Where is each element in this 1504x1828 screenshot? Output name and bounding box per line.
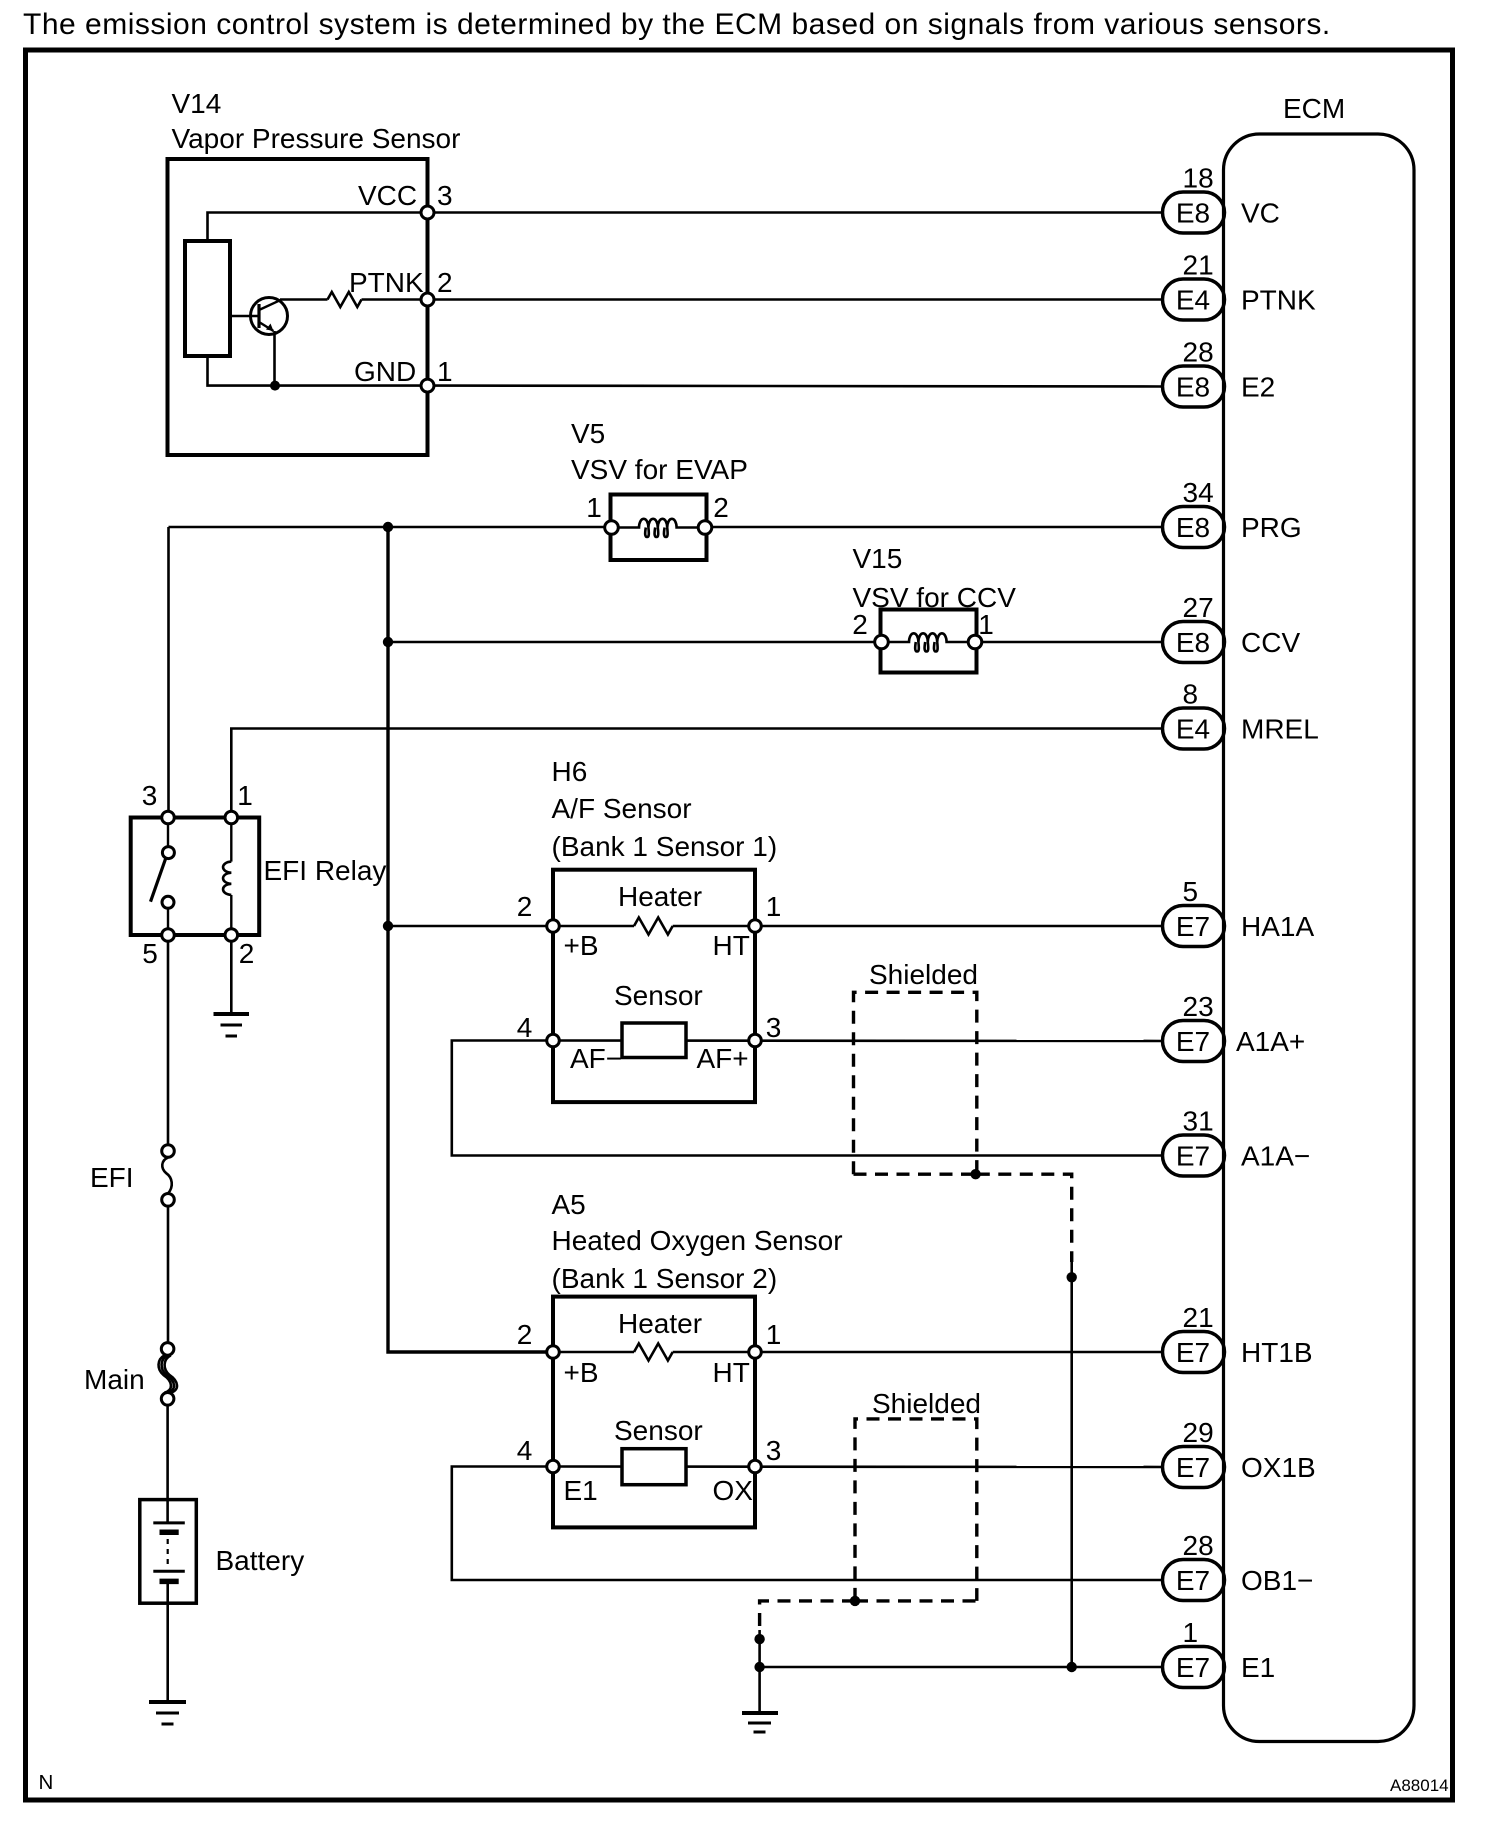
svg-text:A1A+: A1A+ bbox=[1236, 1026, 1305, 1057]
wire relay pin5 down bbox=[167, 941, 170, 1145]
svg-text:2: 2 bbox=[713, 492, 729, 523]
pin 29 E7 OX1B bbox=[1163, 1417, 1316, 1488]
wire PRG right bbox=[712, 526, 1163, 529]
terminal 2 of V14 bbox=[421, 293, 434, 306]
wire VCC internal bbox=[208, 213, 428, 242]
svg-text:3: 3 bbox=[766, 1435, 782, 1466]
sensor element A5 bbox=[622, 1449, 686, 1485]
svg-text:3: 3 bbox=[142, 780, 158, 811]
wire E2 bbox=[434, 384, 1163, 387]
terminal AF- H6 bbox=[547, 1034, 560, 1047]
wire fuse to main link bbox=[167, 1206, 170, 1343]
terminal 3 of V14 bbox=[421, 206, 434, 219]
svg-text:E1: E1 bbox=[564, 1475, 598, 1506]
ground battery bbox=[149, 1702, 186, 1724]
A/F sensor H6 box bbox=[553, 870, 755, 1102]
resistor R1 PTNK bbox=[328, 292, 362, 307]
junction emitter-GND bbox=[270, 381, 280, 391]
svg-text:A1A−: A1A− bbox=[1241, 1141, 1310, 1172]
relay terminal 5 bbox=[162, 929, 175, 942]
terminal 1 of V14 bbox=[421, 379, 434, 392]
wire shield1 drain solid bbox=[1070, 1262, 1073, 1667]
svg-text:4: 4 bbox=[517, 1435, 533, 1466]
wire CCV right bbox=[982, 641, 1163, 644]
svg-text:HA1A: HA1A bbox=[1241, 911, 1314, 942]
wire A1A- bbox=[452, 1041, 1163, 1156]
svg-text:E8: E8 bbox=[1176, 627, 1210, 658]
resistive sensing element bbox=[185, 241, 230, 356]
pin 34 E8 PRG bbox=[1163, 477, 1302, 548]
junction shield1 drain bbox=[970, 1169, 980, 1179]
wire battery to ground bbox=[166, 1581, 169, 1702]
transistor Q1 bbox=[230, 298, 288, 335]
svg-text:Heater: Heater bbox=[618, 1308, 702, 1339]
svg-text:V14: V14 bbox=[172, 88, 222, 119]
svg-text:E7: E7 bbox=[1176, 1026, 1210, 1057]
junction shield2 drain bbox=[850, 1596, 860, 1606]
svg-text:8: 8 bbox=[1183, 679, 1199, 710]
svg-text:AF+: AF+ bbox=[697, 1043, 749, 1074]
terminal 2 of V15 bbox=[875, 635, 889, 649]
wire shield2 drain solid bbox=[758, 1630, 761, 1667]
wire main bus vertical bbox=[388, 527, 553, 1352]
svg-text:1: 1 bbox=[586, 492, 602, 523]
svg-text:OX1B: OX1B bbox=[1241, 1452, 1316, 1483]
pin 21 E4 PTNK bbox=[1163, 250, 1317, 321]
svg-text:+B: +B bbox=[564, 930, 599, 961]
svg-text:A5: A5 bbox=[552, 1189, 586, 1220]
svg-text:3: 3 bbox=[437, 180, 453, 211]
wire OB1- bbox=[452, 1467, 1163, 1581]
wire link to battery bbox=[166, 1405, 169, 1523]
terminal 2 of V5 bbox=[698, 521, 712, 535]
relay terminal 2 bbox=[225, 929, 238, 942]
svg-text:Heated Oxygen Sensor: Heated Oxygen Sensor bbox=[552, 1225, 843, 1256]
svg-text:4: 4 bbox=[517, 1012, 533, 1043]
svg-text:E4: E4 bbox=[1176, 714, 1210, 745]
wire GND internal bbox=[208, 356, 428, 386]
wire H6 +B feed bbox=[388, 925, 553, 928]
svg-text:EFI Relay: EFI Relay bbox=[264, 855, 387, 886]
svg-text:2: 2 bbox=[437, 267, 453, 298]
vapor pressure sensor V14 box bbox=[168, 159, 428, 455]
svg-text:PTNK: PTNK bbox=[349, 267, 424, 298]
VSV V5 box bbox=[611, 495, 707, 561]
terminal HT H6 bbox=[749, 920, 762, 933]
svg-text:1: 1 bbox=[237, 780, 253, 811]
pin 31 E7 A1A- bbox=[1163, 1106, 1311, 1177]
wire VC bbox=[434, 211, 1163, 214]
svg-text:Sensor: Sensor bbox=[614, 1415, 703, 1446]
resistor heater A5 bbox=[634, 1344, 673, 1361]
svg-text:MREL: MREL bbox=[1241, 714, 1319, 745]
EFI relay box bbox=[131, 818, 260, 936]
svg-text:VC: VC bbox=[1241, 198, 1280, 229]
svg-text:18: 18 bbox=[1183, 163, 1214, 194]
svg-text:EFI: EFI bbox=[90, 1162, 134, 1193]
svg-text:E7: E7 bbox=[1176, 911, 1210, 942]
terminal E1 A5 bbox=[547, 1460, 560, 1473]
terminal 1 of V15 bbox=[968, 635, 982, 649]
svg-text:H6: H6 bbox=[552, 756, 588, 787]
terminal 1 of V5 bbox=[605, 521, 619, 535]
junction H6 +B bbox=[383, 921, 393, 931]
svg-text:21: 21 bbox=[1183, 250, 1214, 281]
junction PRG-bus bbox=[383, 522, 393, 532]
svg-text:E7: E7 bbox=[1176, 1565, 1210, 1596]
pin 27 E8 CCV bbox=[1163, 592, 1301, 663]
svg-text:CCV: CCV bbox=[1241, 627, 1300, 658]
svg-text:OB1−: OB1− bbox=[1241, 1565, 1313, 1596]
pin 8 E4 MREL bbox=[1163, 679, 1319, 750]
svg-text:E7: E7 bbox=[1176, 1337, 1210, 1368]
svg-text:1: 1 bbox=[766, 891, 782, 922]
pin 1 E7 E1 bbox=[1163, 1617, 1276, 1688]
wire H6 heater right / HA1A bbox=[673, 925, 1163, 928]
ECM box bbox=[1224, 134, 1415, 1742]
svg-text:2: 2 bbox=[239, 938, 255, 969]
fuse EFI bbox=[162, 1145, 175, 1206]
svg-text:2: 2 bbox=[517, 1319, 533, 1350]
svg-text:Battery: Battery bbox=[216, 1545, 305, 1576]
svg-text:Shielded: Shielded bbox=[872, 1388, 981, 1419]
relay terminal 1 bbox=[225, 811, 238, 824]
svg-text:Heater: Heater bbox=[618, 881, 702, 912]
svg-text:29: 29 bbox=[1183, 1417, 1214, 1448]
svg-text:Shielded: Shielded bbox=[869, 959, 978, 990]
relay terminal 3 bbox=[162, 811, 175, 824]
wire left feed vertical bbox=[167, 527, 170, 818]
svg-text:HT: HT bbox=[713, 930, 750, 961]
svg-text:28: 28 bbox=[1183, 337, 1214, 368]
shield 1 drain dashed bbox=[977, 1174, 1072, 1262]
relay coil bbox=[223, 818, 231, 936]
pin 23 E7 A1A+ bbox=[1163, 991, 1306, 1062]
svg-text:A88014: A88014 bbox=[1390, 1776, 1449, 1795]
svg-text:1: 1 bbox=[978, 609, 994, 640]
terminal OX A5 bbox=[749, 1460, 762, 1473]
svg-text:VCC: VCC bbox=[358, 180, 417, 211]
svg-text:E2: E2 bbox=[1241, 372, 1275, 403]
svg-text:5: 5 bbox=[142, 938, 158, 969]
junction E1 ground bbox=[754, 1662, 764, 1672]
svg-text:N: N bbox=[39, 1771, 54, 1794]
terminal HT A5 bbox=[749, 1346, 762, 1359]
pin 5 E7 HA1A bbox=[1163, 876, 1315, 947]
svg-text:21: 21 bbox=[1183, 1302, 1214, 1333]
svg-text:2: 2 bbox=[852, 609, 868, 640]
svg-text:1: 1 bbox=[1183, 1617, 1199, 1648]
svg-text:VSV for EVAP: VSV for EVAP bbox=[571, 454, 748, 485]
wire MREL bbox=[231, 729, 1162, 818]
svg-text:OX: OX bbox=[713, 1475, 754, 1506]
svg-text:V15: V15 bbox=[853, 543, 903, 574]
wire H6 heater left bbox=[553, 925, 634, 928]
wire E1 to ground bbox=[758, 1667, 761, 1713]
svg-text:PTNK: PTNK bbox=[1241, 285, 1316, 316]
svg-text:ECM: ECM bbox=[1283, 93, 1345, 124]
VSV V15 box bbox=[881, 610, 977, 673]
svg-text:3: 3 bbox=[766, 1012, 782, 1043]
svg-text:1: 1 bbox=[437, 356, 453, 387]
svg-text:PRG: PRG bbox=[1241, 512, 1302, 543]
svg-text:5: 5 bbox=[1183, 876, 1199, 907]
pin 28 E8 E2 bbox=[1163, 337, 1276, 408]
terminal AF+ H6 bbox=[749, 1034, 762, 1047]
wire relay pin2 to ground bbox=[230, 941, 233, 1014]
ground E1 bbox=[742, 1713, 778, 1732]
svg-text:27: 27 bbox=[1183, 592, 1214, 623]
wire emitter to GND bbox=[273, 331, 276, 386]
wire collector to PTNK resistor bbox=[280, 298, 328, 301]
terminal +B H6 bbox=[547, 920, 560, 933]
shield box 1 bbox=[854, 992, 977, 1174]
sensor element H6 bbox=[622, 1023, 686, 1058]
svg-text:(Bank 1 Sensor 1): (Bank 1 Sensor 1) bbox=[552, 831, 778, 862]
inductor coil V5 bbox=[619, 519, 699, 528]
svg-text:31: 31 bbox=[1183, 1106, 1214, 1137]
svg-text:1: 1 bbox=[766, 1319, 782, 1350]
junction drain transition 2 bbox=[754, 1634, 764, 1644]
svg-text:Vapor Pressure Sensor: Vapor Pressure Sensor bbox=[172, 123, 461, 154]
junction E1 drain bbox=[1067, 1662, 1077, 1672]
svg-text:28: 28 bbox=[1183, 1530, 1214, 1561]
shield box 2 bbox=[855, 1419, 977, 1601]
svg-text:E8: E8 bbox=[1176, 372, 1210, 403]
svg-text:Main: Main bbox=[84, 1364, 145, 1395]
wire CCV left bbox=[388, 641, 875, 644]
svg-text:HT1B: HT1B bbox=[1241, 1337, 1313, 1368]
svg-text:E4: E4 bbox=[1176, 285, 1210, 316]
relay switch bbox=[151, 823, 175, 935]
wire resistor to terminal 2 bbox=[362, 298, 428, 301]
ground relay bbox=[214, 1014, 250, 1036]
svg-text:E8: E8 bbox=[1176, 512, 1210, 543]
svg-text:A/F Sensor: A/F Sensor bbox=[552, 793, 692, 824]
svg-text:E1: E1 bbox=[1241, 1652, 1275, 1683]
svg-text:E7: E7 bbox=[1176, 1452, 1210, 1483]
wire PTNK bbox=[434, 298, 1163, 301]
svg-text:2: 2 bbox=[517, 891, 533, 922]
heated oxygen sensor A5 box bbox=[553, 1297, 755, 1528]
shield box 2 bottom bbox=[855, 1599, 977, 1602]
terminal +B A5 bbox=[547, 1346, 560, 1359]
svg-text:The emission control system is: The emission control system is determine… bbox=[23, 8, 1331, 41]
svg-text:E8: E8 bbox=[1176, 198, 1210, 229]
fusible link Main bbox=[159, 1343, 177, 1406]
wire H6 sensor row / A1A+ bbox=[553, 1039, 1163, 1042]
svg-text:E7: E7 bbox=[1176, 1141, 1210, 1172]
junction CCV-bus bbox=[383, 637, 393, 647]
battery bbox=[140, 1500, 197, 1604]
inductor coil V15 bbox=[889, 633, 969, 642]
wire A5 heater right / HT1B bbox=[673, 1351, 1163, 1354]
pin 21 E7 HT1B bbox=[1163, 1302, 1313, 1373]
svg-text:(Bank 1 Sensor 2): (Bank 1 Sensor 2) bbox=[552, 1263, 778, 1294]
wire E1 bbox=[760, 1666, 1163, 1669]
wire A5 heater left bbox=[553, 1351, 634, 1354]
svg-text:V5: V5 bbox=[571, 418, 605, 449]
wire A5 sensor row / OX1B bbox=[553, 1465, 1163, 1468]
svg-text:Sensor: Sensor bbox=[614, 980, 703, 1011]
shield box 1 bottom bbox=[854, 1172, 977, 1175]
pin 18 E8 VC bbox=[1163, 163, 1280, 234]
svg-text:AF−: AF− bbox=[570, 1043, 622, 1074]
svg-text:GND: GND bbox=[354, 356, 416, 387]
shield 2 drain dashed bbox=[760, 1601, 855, 1630]
wire PRG left bbox=[169, 526, 606, 529]
junction drain transition bbox=[1067, 1272, 1077, 1282]
pin 28 E7 OB1- bbox=[1163, 1530, 1314, 1601]
svg-text:23: 23 bbox=[1183, 991, 1214, 1022]
svg-text:E7: E7 bbox=[1176, 1652, 1210, 1683]
svg-text:+B: +B bbox=[564, 1357, 599, 1388]
resistor heater H6 bbox=[634, 918, 673, 935]
svg-text:34: 34 bbox=[1183, 477, 1214, 508]
svg-text:HT: HT bbox=[713, 1357, 750, 1388]
